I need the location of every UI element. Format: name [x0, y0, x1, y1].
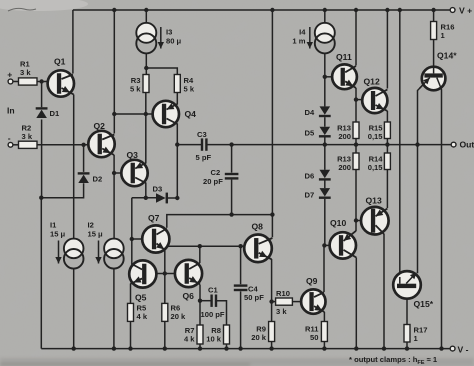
wire D6-D7: [324, 181, 326, 189]
svg-text:I1: I1: [50, 221, 57, 230]
wire D2 top: [83, 145, 85, 172]
svg-text:5 k: 5 k: [130, 85, 141, 94]
svg-text:50 pF: 50 pF: [244, 293, 264, 302]
svg-text:-: -: [8, 133, 11, 143]
resistor R6: [162, 303, 168, 321]
wire Q10 base: [324, 244, 329, 246]
wire Q13 collector to rail: [383, 234, 385, 349]
svg-text:Q4: Q4: [185, 109, 197, 119]
wire C4 drop to rail: [240, 291, 242, 348]
wire R9 riser: [271, 302, 273, 322]
junction Out rail / diode string: [323, 142, 327, 146]
junction Out rail / R15 R14: [385, 142, 389, 146]
svg-text:Q9: Q9: [306, 276, 318, 286]
wire R13b down to Q13 base / Q10 emitter: [355, 170, 357, 232]
resistor R16: [431, 22, 437, 40]
wire Q9 collector riser: [323, 245, 325, 292]
transistor Q2: [88, 131, 114, 157]
junction Out rail / C2: [229, 142, 233, 146]
wire I3 to R3/R4 node: [145, 53, 147, 74]
wire C1 right to R8: [217, 301, 227, 325]
wire Q14 left leg: [418, 78, 430, 274]
svg-text:3 k: 3 k: [20, 68, 31, 77]
svg-text:20 k: 20 k: [251, 333, 267, 342]
junction Q10 collector / V- rail: [354, 346, 358, 350]
wire Q10 collector to rail: [355, 258, 357, 349]
junction Q2 emitter / Q3 base: [112, 171, 116, 175]
svg-text:I4: I4: [299, 28, 306, 37]
junction Q6 collector / Q8 base: [198, 244, 202, 248]
junction R11 / V- rail: [322, 346, 326, 350]
wire Q11 base: [325, 76, 333, 78]
wire R16 from rail: [433, 10, 435, 22]
capacitor C3: [201, 138, 203, 150]
resistor R17: [404, 325, 410, 343]
junction Q13 collector / V- rail: [382, 346, 386, 350]
wire R11 to rail: [323, 342, 325, 349]
wire left edge down to V- rail: [40, 198, 42, 349]
arrow I3: [160, 27, 162, 49]
svg-text:3 k: 3 k: [22, 132, 33, 141]
svg-text:+: +: [7, 70, 12, 80]
diode D7: [319, 197, 331, 199]
svg-text:Q7: Q7: [148, 213, 160, 223]
wire Q3 base: [114, 172, 121, 174]
junction Q4 collector / D3: [175, 196, 179, 200]
wire R13 to Out rail: [355, 139, 357, 154]
svg-text:In: In: [7, 106, 15, 116]
wire Q1 collector to V+ rail: [72, 10, 74, 74]
wire D1 anode string: [41, 82, 43, 108]
transistor Q1: [48, 70, 74, 96]
wire R17 to rail: [406, 342, 408, 349]
svg-text:100 pF: 100 pF: [201, 310, 225, 319]
junction R17 / V- rail: [405, 346, 409, 350]
current source I1: [64, 239, 84, 259]
svg-text:Out: Out: [460, 140, 474, 150]
svg-text:Q13: Q13: [366, 196, 382, 206]
junction top rail / Q11 collector: [354, 8, 358, 12]
svg-text:D1: D1: [50, 109, 60, 118]
junction C2 / Q7 collector wire: [229, 212, 233, 216]
resistor R11: [321, 322, 327, 342]
wire R2 to Q2 base: [37, 144, 88, 146]
junction Out rail / R13: [354, 142, 358, 146]
wire D4-D5: [324, 117, 326, 127]
wire Out rail to D6: [324, 145, 326, 170]
wire Q12 base: [356, 99, 362, 101]
wire D5 to Out rail: [324, 137, 326, 144]
wire Q11 collector riser: [355, 10, 357, 66]
transistor Q7: [142, 225, 169, 252]
svg-text:1 m: 1 m: [292, 36, 305, 45]
svg-text:D7: D7: [305, 191, 315, 200]
capacitor C1: [210, 295, 212, 307]
junction top rail / I3: [144, 8, 148, 12]
resistor R13t: [353, 122, 359, 139]
junction top rail / I4: [323, 8, 327, 12]
wire Q12 emitter to R15: [386, 111, 388, 122]
junction Q1 base / D1: [39, 79, 43, 83]
svg-text:Q10: Q10: [330, 218, 346, 228]
svg-text:I3: I3: [166, 28, 172, 37]
svg-text:0,15: 0,15: [368, 163, 384, 172]
junction C4 / Q8 base: [238, 244, 242, 248]
wire Q1 emitter to I1: [73, 95, 75, 239]
wire R7 to rail: [199, 344, 201, 349]
wire C1 left: [200, 300, 211, 302]
junction top rail / Q15 line: [398, 8, 402, 12]
diode D4: [319, 115, 331, 117]
svg-text:Q14*: Q14*: [437, 51, 457, 61]
svg-text:20 k: 20 k: [171, 312, 187, 321]
transistor Q15 (output clamp): [393, 271, 421, 299]
wire R4 to Q4 emitter: [176, 93, 178, 105]
current source I4: [315, 23, 335, 43]
svg-text:I2: I2: [88, 221, 94, 230]
svg-text:3 k: 3 k: [276, 307, 287, 316]
wire R10 to Q9 base: [292, 301, 301, 303]
resistor R13b: [353, 153, 359, 170]
arrow I2: [98, 241, 100, 264]
wire Q11 emitter to R13: [355, 88, 357, 122]
wire V+ to Q15 line: [399, 10, 401, 284]
transistor Q14 (output clamp): [422, 67, 446, 91]
diode D1: [36, 107, 48, 109]
scan shadow bottom edge: [0, 358, 474, 366]
wire Q2 collector to V+ rail: [113, 10, 115, 134]
junction top rail / Q2 collector: [112, 8, 116, 12]
junction top rail / Q12 collector: [385, 8, 389, 12]
junction Q14 right leg / V- rail: [439, 346, 443, 350]
wire - input to R2: [13, 144, 19, 146]
wire D3 anode side: [132, 197, 156, 199]
wire Q12 collector riser: [386, 10, 388, 89]
transistor Q4: [153, 101, 179, 127]
junction top rail / Q8 collector line: [270, 8, 274, 12]
wire bottom V- rail: [41, 348, 452, 350]
arrow I1: [58, 241, 60, 264]
wire R16 to Q14: [433, 40, 435, 78]
wire Q4 collector down: [176, 124, 178, 199]
junction R6 / V- rail: [163, 346, 167, 350]
junction Q2 collector / Q4 base: [112, 112, 116, 116]
wire I4 to D4: [324, 53, 326, 106]
junction top rail / R16: [431, 8, 435, 12]
wire C2 riser: [231, 145, 233, 173]
wire R5 drop: [130, 284, 132, 304]
junction Q14 leg / Out rail: [415, 142, 419, 146]
resistor R5: [128, 303, 134, 321]
junction R5 / V- rail: [128, 346, 132, 350]
svg-text:15 μ: 15 μ: [50, 229, 66, 238]
capacitor C4: [234, 284, 248, 286]
junction Q4 collector / C3: [175, 142, 179, 146]
junction I1 / V- rail: [72, 346, 76, 350]
resistor R14: [384, 153, 390, 170]
wire D3 cathode side: [168, 197, 178, 199]
wire R6 to rail: [164, 321, 166, 348]
svg-text:C2: C2: [211, 168, 221, 177]
svg-text:10 k: 10 k: [206, 335, 222, 344]
wire V+ top rail: [73, 9, 452, 11]
junction Q5 Q6 base rail: [163, 271, 167, 275]
wire D2 bottom L: [41, 183, 83, 198]
svg-text:200: 200: [338, 132, 351, 141]
svg-text:5 pF: 5 pF: [196, 153, 212, 162]
transistor Q12: [362, 88, 387, 113]
wire node to R4: [146, 68, 177, 75]
svg-text:Q6: Q6: [183, 291, 195, 301]
junction R9 / V- rail: [269, 346, 273, 350]
wire Q7 emitter drop: [164, 250, 166, 304]
svg-text:5 k: 5 k: [184, 85, 195, 94]
svg-text:Q12: Q12: [364, 77, 380, 87]
svg-text:C3: C3: [197, 130, 207, 139]
transistor Q3: [121, 160, 147, 186]
junction D1/D2 anode node: [39, 196, 43, 200]
wire I1 to V- rail: [73, 268, 75, 348]
resistor R2: [19, 141, 38, 148]
svg-text:Q11: Q11: [336, 52, 352, 62]
wire Q14 right leg: [437, 78, 442, 349]
wire I4 from rail: [324, 10, 326, 23]
wire Q5-Q6 base rail: [156, 273, 175, 275]
diode D5: [319, 135, 331, 137]
junction R3 / Q4 base: [144, 112, 148, 116]
svg-text:D2: D2: [93, 175, 103, 184]
svg-text:V -: V -: [458, 345, 469, 355]
wire Q4 base line: [114, 113, 152, 115]
current source I2: [104, 239, 124, 259]
svg-text:D6: D6: [305, 172, 315, 181]
wire Q5 collector / Q7 base riser: [131, 198, 133, 265]
junction Q11 base: [323, 75, 327, 79]
resistor R7: [197, 325, 203, 344]
wire Q7 base: [132, 238, 142, 240]
current source I3: [136, 23, 156, 43]
diode D2: [78, 172, 90, 174]
junction I2 / V- rail: [112, 346, 116, 350]
svg-text:50: 50: [310, 333, 318, 342]
wire Q6 emitter drop to R7: [199, 285, 201, 326]
transistor Q13: [361, 207, 389, 235]
svg-text:V +: V +: [459, 6, 472, 16]
svg-text:80 μ: 80 μ: [166, 36, 182, 45]
svg-text:0,15: 0,15: [368, 132, 384, 141]
svg-text:D5: D5: [305, 129, 315, 138]
terminal Out: [451, 142, 456, 147]
wire Q15 to R17: [406, 288, 408, 325]
transistor Q9: [301, 289, 325, 313]
wire Q8 emitter drop: [271, 259, 273, 302]
capacitor C2: [225, 173, 239, 175]
diode D3: [156, 193, 166, 203]
wire C4 riser: [240, 246, 242, 284]
svg-text:Q1: Q1: [54, 57, 66, 67]
svg-text:20 pF: 20 pF: [203, 177, 223, 186]
svg-text:Q8: Q8: [252, 222, 264, 232]
transistor Q8: [244, 235, 272, 263]
svg-text:C1: C1: [208, 286, 218, 295]
wire R15 to Out rail: [386, 139, 388, 154]
terminal V+: [450, 8, 455, 13]
wire R10 left: [272, 301, 276, 303]
diode D6: [319, 178, 331, 180]
junction Q7 base: [130, 237, 134, 241]
svg-text:200: 200: [338, 163, 351, 172]
wire I3 from rail: [145, 10, 147, 23]
wire Out rail: [207, 144, 451, 146]
wire Q3 collector drop: [145, 183, 147, 198]
wire Q13 base: [356, 220, 372, 222]
svg-text:Q5: Q5: [135, 293, 147, 303]
junction Q6 emitter / C1: [198, 299, 202, 303]
svg-text:4 k: 4 k: [137, 312, 148, 321]
resistor R1: [19, 78, 38, 85]
resistor R10: [276, 298, 293, 305]
svg-text:D3: D3: [153, 185, 163, 194]
junction R13b / Q13 base: [354, 218, 358, 222]
svg-text:Q15*: Q15*: [414, 299, 434, 309]
junction I3 bottom node: [144, 66, 148, 70]
wire C2 drop: [231, 180, 233, 215]
svg-text:Q3: Q3: [127, 150, 139, 160]
wire + input to R1: [13, 81, 19, 83]
junction C4 / V- rail: [238, 346, 242, 350]
wire R3 to Q4 base line / Q3 emitter: [145, 93, 147, 164]
transistor Q10: [330, 231, 357, 259]
wire R8 to rail: [226, 344, 228, 349]
resistor R9: [269, 322, 275, 342]
wire R5 to rail: [130, 321, 132, 348]
resistor R4: [174, 75, 180, 93]
wire R9 to rail: [271, 342, 273, 349]
wire C3 left: [177, 144, 201, 146]
scan smudge top-left: [0, 0, 88, 11]
transistor Q5: [129, 260, 156, 287]
junction R7 / V- rail: [198, 346, 202, 350]
junction Q7 collector wire / V+ line: [270, 212, 274, 216]
wire R14 down to Q13 emitter: [386, 170, 388, 209]
terminal V-: [450, 346, 455, 351]
svg-text:D4: D4: [305, 108, 315, 117]
svg-text:Q2: Q2: [94, 121, 106, 131]
junction Q3 collector / D3 wire: [144, 196, 148, 200]
wire Q6 collector riser: [199, 246, 201, 263]
resistor R3: [143, 75, 149, 93]
wire R1 to Q1 base: [37, 81, 48, 83]
transistor Q6: [175, 260, 202, 287]
wire D1 to lower node: [41, 120, 43, 198]
svg-text:4 k: 4 k: [184, 335, 195, 344]
svg-text:15 μ: 15 μ: [88, 229, 104, 238]
junction Q11 emitter / Q12 base: [354, 97, 358, 101]
wire Q7 collector riser: [167, 215, 273, 228]
wire Q2 emitter to I2: [113, 155, 115, 239]
junction Q10 base / Q9 collector: [322, 243, 326, 247]
wire D7 to Q10 base: [324, 199, 326, 246]
resistor R15: [384, 122, 390, 139]
terminal input +: [8, 79, 13, 84]
svg-text:R10: R10: [276, 289, 290, 298]
wire I2 to V- rail: [113, 268, 115, 348]
junction Q2 base / D2: [81, 143, 85, 147]
wire Q9 emitter to R11: [323, 312, 325, 322]
resistor R8: [224, 325, 230, 344]
arrow I4: [309, 27, 311, 49]
transistor Q11: [332, 64, 357, 89]
junction R8 / V- rail: [224, 346, 228, 350]
wire V+ to Q8 collector: [271, 10, 273, 237]
terminal input -: [8, 142, 13, 147]
junction Q8 emitter / R9 / R10: [269, 299, 273, 303]
wire Q8 base wire: [166, 245, 245, 247]
